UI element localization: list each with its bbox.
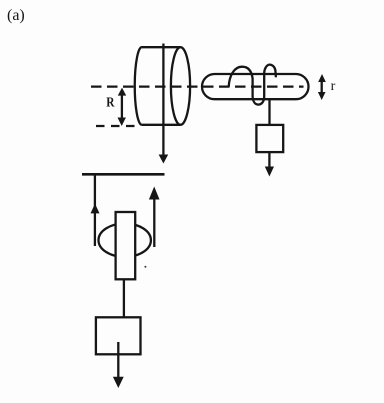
r dimension arrow line xyxy=(321,79,323,94)
dashed center axis xyxy=(91,85,304,87)
arrow below lower box xyxy=(117,342,119,378)
scan speck xyxy=(144,266,146,268)
arrowhead rope cylinder (down) xyxy=(159,155,169,164)
lower mass box xyxy=(96,317,141,354)
r arrowhead down xyxy=(318,92,326,100)
ceiling line xyxy=(82,173,165,176)
right rope arrowhead up xyxy=(149,187,160,200)
svg-text:R: R xyxy=(106,96,115,111)
right rope with tension arrow xyxy=(153,198,155,247)
left rope from ceiling xyxy=(94,174,96,246)
rope axle to box xyxy=(268,99,270,125)
pulley wheel ellipse xyxy=(99,224,151,257)
mass box on axle rope xyxy=(256,125,283,152)
R arrowhead down xyxy=(118,118,126,127)
R arrowhead up xyxy=(118,88,126,96)
cylinder right end ellipse xyxy=(171,47,190,125)
cylinder body xyxy=(135,47,181,125)
rope over cylinder xyxy=(162,44,164,157)
svg-text:(a): (a) xyxy=(7,7,25,24)
R dimension arrow line xyxy=(121,93,123,119)
pulley block rectangle xyxy=(116,212,136,279)
rope coil around axle xyxy=(229,65,276,105)
r arrowhead up xyxy=(318,74,326,82)
arrow below axle box xyxy=(268,152,270,167)
axle capsule xyxy=(202,74,309,99)
rope pulley block to lower box xyxy=(123,279,125,317)
left rope arrowhead up xyxy=(91,204,100,214)
dashed line at cylinder bottom xyxy=(96,125,135,127)
svg-text:r: r xyxy=(331,79,336,94)
